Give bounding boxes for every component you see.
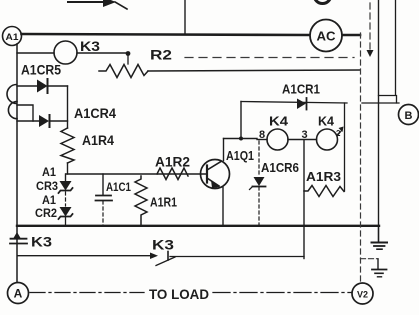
wire xyxy=(303,140,305,259)
resistor A1R2 xyxy=(157,168,188,180)
wire xyxy=(342,34,360,37)
svg-text:A1: A1 xyxy=(6,32,20,43)
wire xyxy=(67,86,69,128)
svg-text:K4: K4 xyxy=(269,114,289,129)
contact K3 xyxy=(167,252,169,261)
svg-text:A1CR1: A1CR1 xyxy=(282,82,320,97)
wire xyxy=(184,0,186,33)
svg-text:A1CR6: A1CR6 xyxy=(261,160,299,175)
svg-text:A1: A1 xyxy=(42,167,57,179)
svg-text:2: 2 xyxy=(336,129,341,138)
zener A1CR2 xyxy=(60,207,72,217)
svg-text:K4: K4 xyxy=(318,114,335,129)
wire xyxy=(18,255,150,257)
meter AC xyxy=(310,20,342,52)
wire xyxy=(66,173,207,175)
diode A1CR5 xyxy=(17,85,37,87)
capacitor A1C1 xyxy=(102,174,104,195)
wire xyxy=(344,103,346,191)
svg-text:A1CR4: A1CR4 xyxy=(74,106,116,121)
svg-text:A1: A1 xyxy=(42,195,57,207)
svg-text:R2: R2 xyxy=(150,47,172,63)
bus wire xyxy=(17,225,379,227)
relay coil K4 xyxy=(257,139,267,141)
dashed linkage xyxy=(361,258,379,260)
contact K3 xyxy=(14,232,21,238)
pin 2 xyxy=(337,130,342,136)
svg-text:3: 3 xyxy=(302,129,308,141)
diode A1CR4 xyxy=(17,120,39,122)
wire xyxy=(379,0,397,103)
ground (small) xyxy=(377,259,379,269)
svg-text:A1C1: A1C1 xyxy=(106,182,132,194)
resistor A1R1 xyxy=(135,176,147,226)
wire xyxy=(224,138,258,140)
transistor A1Q1 xyxy=(201,160,230,189)
node V2 xyxy=(352,283,373,304)
svg-text:A: A xyxy=(14,287,23,301)
relay coil K3 xyxy=(17,52,54,54)
connector arc xyxy=(8,102,17,119)
dashed linkage xyxy=(360,33,362,282)
svg-text:TO LOAD: TO LOAD xyxy=(149,287,209,302)
wire xyxy=(288,139,317,141)
diode (partial, top edge) xyxy=(68,1,103,3)
node A1 xyxy=(3,27,22,46)
relay coil K4 xyxy=(317,129,338,150)
wire jog xyxy=(17,105,33,121)
node A xyxy=(8,283,29,304)
svg-text:CR3: CR3 xyxy=(36,181,58,193)
svg-text:V2: V2 xyxy=(357,290,368,300)
wire xyxy=(148,70,360,71)
meter (partial, top edge) xyxy=(314,0,331,4)
wire xyxy=(378,0,380,226)
svg-text:A1R3: A1R3 xyxy=(306,169,341,184)
wire xyxy=(16,44,18,282)
resistor A1R4 xyxy=(61,128,74,163)
svg-text:B: B xyxy=(405,110,413,122)
resistor A1R3 xyxy=(304,186,344,197)
connector arc xyxy=(7,85,17,104)
ground xyxy=(378,226,380,242)
zener A1CR3 xyxy=(65,174,67,181)
wire xyxy=(240,102,242,139)
node B xyxy=(399,105,419,125)
diode A1CR6 xyxy=(258,141,260,177)
svg-text:K3: K3 xyxy=(152,238,175,253)
wire xyxy=(362,102,399,104)
diode A1CR1 xyxy=(297,99,306,110)
resistor R2 xyxy=(99,65,148,78)
svg-text:A1CR5: A1CR5 xyxy=(21,63,61,78)
to-load line xyxy=(30,292,144,294)
svg-text:CR2: CR2 xyxy=(35,208,57,220)
svg-text:A1R1: A1R1 xyxy=(150,195,177,210)
svg-text:A1Q1: A1Q1 xyxy=(226,149,254,163)
dashed linkage xyxy=(185,57,354,59)
svg-text:K3: K3 xyxy=(80,38,100,54)
wire A1CR1 line xyxy=(241,102,347,104)
svg-text:A1R4: A1R4 xyxy=(82,133,114,148)
svg-text:AC: AC xyxy=(317,29,337,44)
svg-text:A1R2: A1R2 xyxy=(155,155,190,170)
dashed pointer xyxy=(369,3,371,50)
wire xyxy=(22,34,311,35)
svg-text:K3: K3 xyxy=(31,235,53,250)
